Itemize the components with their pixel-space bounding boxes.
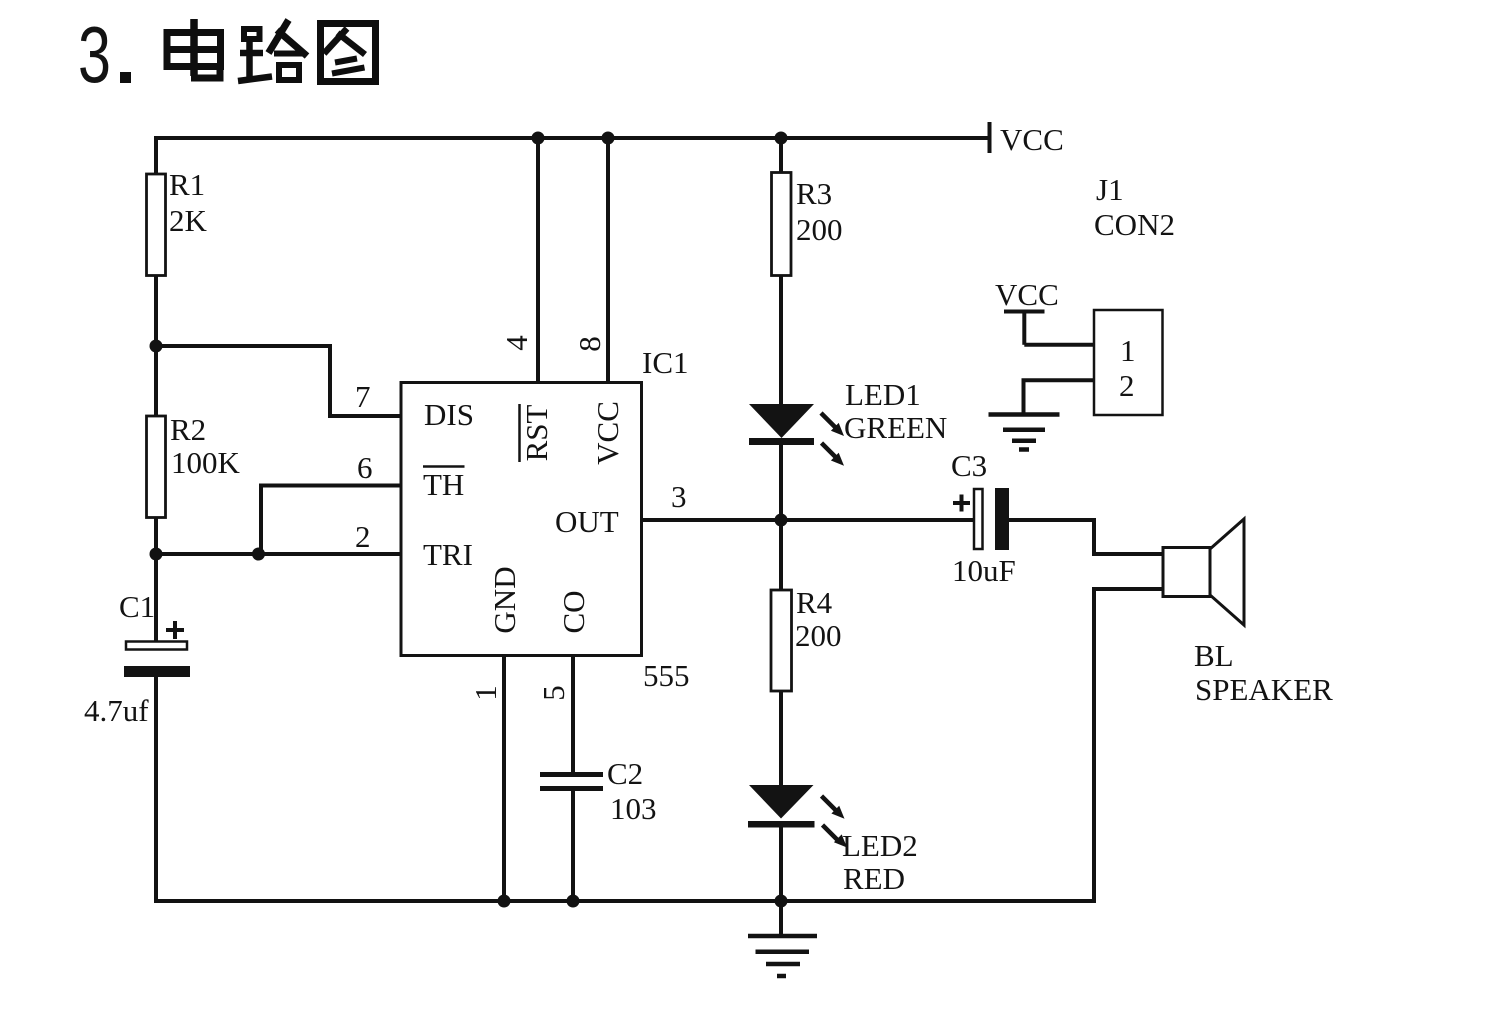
- svg-text:SPEAKER: SPEAKER: [1195, 672, 1333, 707]
- svg-text:3: 3: [78, 9, 111, 99]
- svg-text:RED: RED: [843, 861, 905, 896]
- svg-text:VCC: VCC: [590, 401, 625, 465]
- svg-text:C3: C3: [951, 448, 987, 483]
- svg-text:R2: R2: [170, 412, 206, 447]
- svg-text:6: 6: [357, 450, 373, 485]
- svg-text:LED2: LED2: [842, 828, 918, 863]
- svg-text:BL: BL: [1194, 638, 1234, 673]
- svg-text:VCC: VCC: [995, 277, 1059, 312]
- svg-text:7: 7: [355, 379, 371, 414]
- svg-text:2K: 2K: [169, 203, 208, 238]
- svg-text:4: 4: [499, 335, 534, 351]
- svg-text:8: 8: [572, 336, 607, 352]
- svg-text:103: 103: [610, 791, 657, 826]
- svg-text:10uF: 10uF: [952, 553, 1016, 588]
- svg-text:RST: RST: [519, 405, 554, 462]
- svg-text:CO: CO: [556, 590, 591, 633]
- svg-text:C2: C2: [607, 756, 643, 791]
- svg-text:GND: GND: [487, 566, 522, 633]
- svg-text:J1: J1: [1096, 172, 1124, 207]
- svg-text:2: 2: [355, 519, 371, 554]
- svg-text:2: 2: [1119, 368, 1135, 403]
- svg-text:200: 200: [795, 618, 842, 653]
- svg-text:DIS: DIS: [424, 397, 474, 432]
- svg-text:CON2: CON2: [1094, 207, 1175, 242]
- svg-text:5: 5: [536, 685, 571, 701]
- svg-text:TH: TH: [423, 467, 464, 502]
- svg-text:1: 1: [468, 685, 503, 701]
- svg-text:1: 1: [1120, 333, 1136, 368]
- svg-text:3: 3: [671, 479, 687, 514]
- svg-text:R1: R1: [169, 167, 205, 202]
- svg-text:C1: C1: [119, 589, 155, 624]
- svg-text:100K: 100K: [171, 445, 241, 480]
- svg-text:GREEN: GREEN: [844, 410, 947, 445]
- svg-text:R3: R3: [796, 176, 832, 211]
- svg-text:200: 200: [796, 212, 843, 247]
- svg-text:555: 555: [643, 658, 690, 693]
- svg-text:VCC: VCC: [1000, 122, 1064, 157]
- svg-text:LED1: LED1: [845, 377, 921, 412]
- svg-text:OUT: OUT: [555, 504, 619, 539]
- svg-text:R4: R4: [796, 585, 833, 620]
- svg-text:4.7uf: 4.7uf: [84, 693, 149, 728]
- svg-text:TRI: TRI: [423, 537, 473, 572]
- svg-text:IC1: IC1: [642, 345, 689, 380]
